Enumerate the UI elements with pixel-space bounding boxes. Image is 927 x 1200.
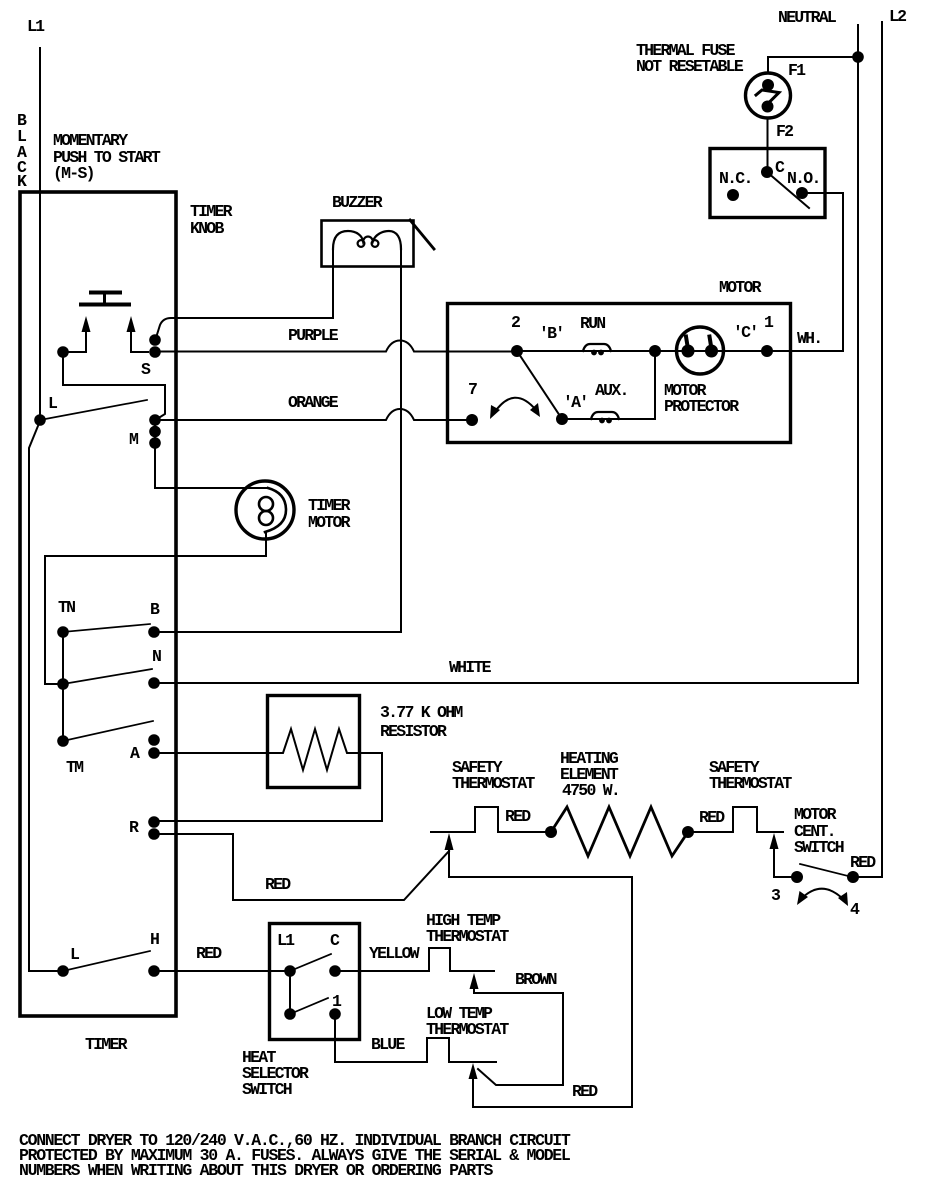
junction heater left dot bbox=[545, 826, 557, 838]
wire L1 rail vertical bbox=[39, 48, 41, 420]
terminal H dot bbox=[148, 965, 160, 977]
svg-text:RESISTOR: RESISTOR bbox=[380, 722, 447, 741]
caption note text bbox=[19, 1131, 571, 1180]
svg-text:(M-S): (M-S) bbox=[53, 164, 94, 183]
label TIMER KNOB bbox=[190, 202, 233, 238]
wire timer motor return to N contact bbox=[45, 533, 266, 684]
svg-text:RED: RED bbox=[265, 875, 291, 894]
svg-text:ORANGE: ORANGE bbox=[288, 393, 339, 412]
wire S terminal up to buzzer left lead bbox=[155, 318, 333, 341]
wire YELLOW: selector C to high temp thermostat bbox=[335, 970, 429, 972]
buzzer coil bbox=[333, 231, 401, 249]
svg-text:SWITCH: SWITCH bbox=[242, 1080, 292, 1099]
fuse F2 bottom terminal dot bbox=[762, 101, 774, 113]
label MOMENTARY PUSH TO START (M-S) bbox=[53, 131, 161, 183]
terminal M dots bbox=[149, 414, 161, 426]
wire PURPLE: S terminal to motor terminal 2 (hop over buzzer lead) bbox=[155, 341, 517, 352]
svg-text:YELLOW: YELLOW bbox=[369, 944, 420, 963]
svg-text:THERMOSTAT: THERMOSTAT bbox=[709, 774, 792, 793]
AUX winding line bbox=[562, 351, 655, 419]
motor main run line bbox=[517, 350, 843, 352]
svg-text:RUN: RUN bbox=[580, 314, 605, 333]
timer switch blade L toward M bbox=[40, 400, 147, 420]
terminal R dots bbox=[148, 816, 160, 828]
svg-text:RED: RED bbox=[196, 944, 222, 963]
wire L down left side to bottom L contact bbox=[29, 421, 63, 971]
push button right contact arrow bbox=[131, 331, 148, 352]
terminal A dots bbox=[148, 734, 160, 746]
svg-text:NUMBERS WHEN WRITING ABOUT THI: NUMBERS WHEN WRITING ABOUT THIS DRYER OR… bbox=[19, 1161, 493, 1180]
wire left push contact down to M terminal bbox=[63, 352, 165, 419]
svg-text:RED: RED bbox=[699, 808, 725, 827]
fuse F1 top terminal dot bbox=[762, 79, 774, 91]
svg-text:L: L bbox=[70, 945, 80, 964]
cent switch blade 4 toward 3 bbox=[800, 864, 852, 877]
svg-text:K: K bbox=[17, 172, 27, 191]
relay switch box (N.C./C/N.O.) bbox=[710, 149, 825, 218]
timer switch blade TN to B bbox=[63, 624, 150, 632]
svg-text:4750 W.: 4750 W. bbox=[562, 781, 619, 800]
buzzer box bbox=[322, 221, 414, 267]
wire N.O. to motor terminal 1 (right side drop) bbox=[802, 193, 843, 351]
svg-text:L1: L1 bbox=[27, 17, 45, 36]
heating element 4750W zigzag bbox=[551, 807, 688, 856]
timer switch blade TM toward A bbox=[63, 721, 153, 741]
svg-text:MOTOR: MOTOR bbox=[308, 513, 351, 532]
thermostat SAFETY (left) bump bbox=[431, 807, 551, 832]
motor enclosure box bbox=[448, 304, 791, 443]
svg-text:S: S bbox=[141, 360, 151, 379]
selector blade L1 to C bbox=[290, 954, 331, 971]
svg-text:KNOB: KNOB bbox=[190, 219, 224, 238]
svg-text:THERMOSTAT: THERMOSTAT bbox=[426, 1020, 509, 1039]
svg-text:L: L bbox=[48, 394, 58, 413]
terminal C dot bbox=[761, 166, 773, 178]
terminal B dot bbox=[148, 626, 160, 638]
svg-text:RED: RED bbox=[850, 853, 876, 872]
wire TN common vertical bbox=[62, 632, 64, 741]
wire BROWN: high temp output to low temp output bbox=[474, 988, 563, 1085]
svg-text:NEUTRAL: NEUTRAL bbox=[778, 8, 837, 27]
timer motor inner winding bbox=[259, 497, 273, 511]
wire resistor output loop to R terminal bbox=[154, 753, 382, 821]
svg-text:C: C bbox=[775, 158, 785, 177]
svg-text:R: R bbox=[129, 818, 139, 837]
svg-text:WHITE: WHITE bbox=[449, 658, 492, 677]
terminal TN dot bbox=[57, 626, 69, 638]
motor start blade 2 to A bbox=[517, 351, 562, 419]
svg-text:PURPLE: PURPLE bbox=[288, 326, 339, 345]
wire M terminal down to timer motor bbox=[155, 443, 268, 488]
terminal N.C. dot bbox=[727, 189, 739, 201]
fuse fusible-link element bbox=[756, 90, 779, 103]
svg-text:TM: TM bbox=[66, 758, 84, 777]
wire NEUTRAL rail vertical bbox=[857, 25, 859, 683]
fuse F1 thermal fuse circle (not resetable) bbox=[746, 73, 791, 118]
svg-text:C: C bbox=[330, 931, 340, 950]
wire terminal 4 to L2 rail bbox=[853, 876, 882, 878]
wire A terminal to resistor bbox=[154, 752, 267, 754]
terminal 4 dot bbox=[847, 871, 859, 883]
svg-text:BLUE: BLUE bbox=[371, 1035, 405, 1054]
svg-text:'C': 'C' bbox=[733, 323, 757, 342]
motor protector circle bbox=[677, 327, 724, 374]
wire BLUE: selector 1 to low temp thermostat bbox=[335, 1014, 427, 1062]
svg-text:F2: F2 bbox=[776, 122, 793, 141]
thermostat HIGH TEMP bump bbox=[429, 948, 494, 971]
svg-text:7: 7 bbox=[468, 380, 477, 399]
wire RED: H terminal to heat selector switch bbox=[154, 970, 290, 972]
svg-text:2: 2 bbox=[511, 313, 520, 332]
connection arrow to left safety thermostat bbox=[445, 833, 454, 850]
selector blade L1 to 1 bbox=[290, 998, 328, 1014]
wire ORANGE: M terminal to motor terminal 7 (hop over buzzer lead) bbox=[155, 409, 472, 420]
svg-text:NOT RESETABLE: NOT RESETABLE bbox=[636, 57, 744, 76]
label THERMAL FUSE NOT RESETABLE bbox=[636, 41, 744, 76]
terminal S dots bbox=[149, 334, 161, 346]
wire L2 rail vertical bbox=[881, 22, 883, 877]
label MOTOR PROTECTOR bbox=[664, 381, 739, 416]
momentary push-to-start button actuator bbox=[91, 291, 120, 295]
svg-text:THERMOSTAT: THERMOSTAT bbox=[426, 927, 509, 946]
junction heater right dot bbox=[682, 826, 694, 838]
junction run/aux dot bbox=[649, 345, 661, 357]
thermostat SAFETY (right) bump bbox=[688, 807, 783, 832]
relay switch blade C to N.O. bbox=[767, 172, 809, 208]
terminal A dot bbox=[556, 413, 568, 425]
svg-text:3: 3 bbox=[771, 886, 781, 905]
connection arrow to low temp stub bbox=[469, 1063, 478, 1079]
junction neutral-to-fuse dot bbox=[852, 51, 864, 63]
svg-text:4: 4 bbox=[850, 900, 860, 919]
terminal 1 dot bbox=[761, 345, 773, 357]
junction N common dot bbox=[57, 678, 69, 690]
heat selector switch box bbox=[270, 924, 360, 1040]
svg-text:AUX.: AUX. bbox=[595, 381, 628, 400]
terminal L (timer line contact) dot bbox=[34, 414, 46, 426]
label HEATING ELEMENT 4750 W. bbox=[560, 749, 619, 800]
push button left contact arrow bbox=[85, 331, 87, 352]
svg-text:F1: F1 bbox=[788, 61, 806, 80]
thermostat LOW TEMP bump bbox=[427, 1038, 496, 1062]
start switch travel arc arrow bbox=[494, 398, 536, 413]
wire motor cent switch terminal 3 up-arrow bbox=[774, 848, 795, 877]
svg-text:TN: TN bbox=[58, 598, 75, 617]
svg-text:SWITCH: SWITCH bbox=[794, 838, 844, 857]
buzzer striker bbox=[410, 220, 434, 249]
timer switch blade L to H bbox=[63, 951, 150, 971]
svg-text:TIMER: TIMER bbox=[85, 1035, 128, 1054]
wire left contact dot to arrow bbox=[63, 351, 86, 353]
connection arrow to high temp stub bbox=[470, 973, 479, 989]
wire B to buzzer right lead bbox=[154, 247, 401, 632]
svg-text:BROWN: BROWN bbox=[515, 970, 557, 989]
svg-text:N.O.: N.O. bbox=[787, 169, 820, 188]
label SAFETY THERMOSTAT (right) bbox=[709, 758, 792, 793]
label SAFETY THERMOSTAT (left) bbox=[452, 758, 535, 793]
terminal L1 upper dot bbox=[284, 965, 296, 977]
buzzer left lead bbox=[332, 248, 334, 318]
svg-text:'B': 'B' bbox=[539, 324, 563, 343]
terminal 2 dot bbox=[511, 345, 523, 357]
wire RED return loop (safety tstat junction to low temp output) bbox=[449, 849, 632, 1107]
svg-text:M: M bbox=[129, 430, 139, 449]
label HIGH TEMP THERMOSTAT bbox=[426, 911, 509, 946]
svg-text:3.77 K OHM: 3.77 K OHM bbox=[380, 703, 463, 722]
timer switch blade toward N bbox=[63, 669, 152, 684]
svg-text:RED: RED bbox=[505, 807, 531, 826]
label 3.77 K OHM RESISTOR bbox=[380, 703, 463, 741]
svg-text:MOTOR: MOTOR bbox=[719, 278, 762, 297]
svg-text:RED: RED bbox=[572, 1082, 598, 1101]
terminal 3 dot bbox=[791, 871, 803, 883]
svg-text:BUZZER: BUZZER bbox=[332, 193, 383, 212]
wire L1 common vertical bbox=[289, 971, 291, 1014]
node L1 BLACK wire color label (vertical) bbox=[17, 111, 27, 191]
wire RED: R terminal to left safety thermostat bbox=[154, 834, 449, 900]
terminal TM dot bbox=[57, 735, 69, 747]
resistor R1 zigzag element bbox=[267, 729, 359, 770]
svg-text:THERMOSTAT: THERMOSTAT bbox=[452, 774, 535, 793]
wire WHITE: N terminal to neutral rail bbox=[154, 682, 858, 684]
terminal 7 dot bbox=[466, 414, 478, 426]
terminal C dot bbox=[329, 965, 341, 977]
label MOTOR CENT. SWITCH bbox=[794, 805, 844, 857]
svg-text:PROTECTOR: PROTECTOR bbox=[664, 397, 739, 416]
terminal N dot bbox=[148, 677, 160, 689]
terminal 1 dot bbox=[329, 1008, 341, 1020]
label TIMER MOTOR bbox=[308, 496, 351, 532]
terminal N.O. dot bbox=[796, 187, 808, 199]
timer enclosure box bbox=[20, 192, 176, 1016]
svg-text:1: 1 bbox=[332, 992, 342, 1011]
resistor box 3.77K bbox=[268, 696, 360, 788]
svg-text:N: N bbox=[152, 647, 161, 666]
svg-text:WH.: WH. bbox=[797, 329, 821, 348]
svg-text:N.C.: N.C. bbox=[719, 169, 752, 188]
svg-text:L2: L2 bbox=[889, 7, 906, 26]
label HEAT SELECTOR SWITCH bbox=[242, 1048, 309, 1099]
svg-text:H: H bbox=[150, 930, 159, 949]
svg-text:'A': 'A' bbox=[563, 393, 587, 412]
RUN winding bbox=[583, 344, 611, 351]
cent switch travel arc arrow bbox=[801, 889, 844, 900]
terminal L1 lower dot bbox=[284, 1008, 296, 1020]
push button left contact terminal dot bbox=[57, 346, 69, 358]
svg-text:B: B bbox=[150, 600, 160, 619]
terminal L (bottom heat contact) dot bbox=[57, 965, 69, 977]
svg-text:1: 1 bbox=[764, 313, 774, 332]
wire neutral junction to fuse top bbox=[768, 57, 858, 73]
protector contacts bbox=[682, 345, 695, 358]
timer motor circle bbox=[236, 481, 294, 539]
svg-text:L1: L1 bbox=[277, 931, 295, 950]
label LOW TEMP THERMOSTAT bbox=[426, 1004, 509, 1039]
wire fuse bottom to relay common bbox=[767, 118, 769, 172]
svg-text:A: A bbox=[130, 744, 140, 763]
